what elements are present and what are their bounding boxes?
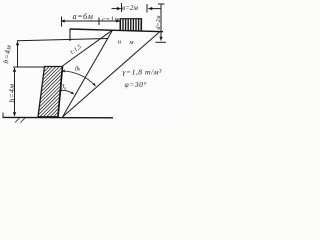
rupture line far: [63, 32, 161, 118]
dimension line a: [61, 20, 120, 22]
svg-text:ϑк: ϑк: [75, 66, 81, 73]
tick d top: [158, 3, 165, 5]
svg-text:м: м: [128, 39, 133, 46]
svg-text:φ=30°: φ=30°: [125, 80, 147, 89]
dimension line b: [17, 42, 19, 67]
rupture line to point n: [63, 31, 113, 117]
extension tick at x61: [61, 17, 63, 27]
dimension line d vertical: [160, 4, 162, 41]
bench ground line: [17, 39, 108, 41]
wall crest extension line: [13, 66, 45, 68]
svg-text:в=2м: в=2м: [122, 4, 138, 12]
base line end tick: [2, 113, 4, 118]
svg-text:а=6м: а=6м: [73, 12, 94, 21]
svg-text:с=1м: с=1м: [102, 16, 119, 24]
svg-text:γ=1,8 т/м³: γ=1,8 т/м³: [123, 68, 162, 77]
tick v left: [121, 3, 123, 12]
ground step vertical: [69, 29, 71, 41]
retaining wall hatched: [30, 0, 95, 161]
base ground line: [3, 116, 114, 118]
arrow v right leader: [149, 8, 162, 10]
svg-text:ϑ₀: ϑ₀: [61, 84, 66, 91]
arrow v left outside: [112, 8, 121, 10]
ground hatch ticks: [15, 118, 25, 123]
angle arc theta0: [59, 90, 74, 94]
svg-text:h=4м: h=4м: [7, 84, 16, 103]
backfill slope line 1:1.5: [62, 31, 111, 66]
upper ground line: [70, 29, 163, 32]
svg-text:н: н: [118, 39, 121, 46]
strip load q hatched: [120, 19, 142, 32]
angle arc thetak: [62, 71, 96, 86]
extension tick between a and c: [98, 18, 100, 26]
dimension line h: [14, 68, 16, 116]
tick v right: [146, 4, 148, 13]
tick d bottom: [156, 41, 167, 43]
svg-text:d=2м: d=2м: [156, 15, 162, 29]
